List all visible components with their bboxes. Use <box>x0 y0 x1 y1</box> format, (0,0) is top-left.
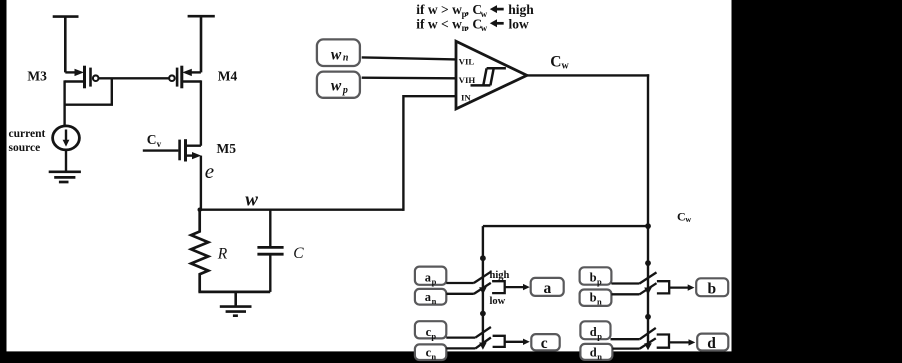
box an <box>415 289 446 306</box>
condition text line 1 <box>416 2 534 19</box>
svg-text:source: source <box>9 142 41 154</box>
letterbox right bar <box>732 0 902 363</box>
wire dp to switch <box>611 338 640 340</box>
switch blade b high <box>640 272 657 283</box>
condition text line 2 <box>416 16 529 33</box>
svg-text:w: w <box>245 189 258 210</box>
svg-text:p: p <box>431 331 436 341</box>
svg-text:C: C <box>293 245 304 262</box>
box ap <box>415 267 446 287</box>
VDD rail 2 <box>188 16 215 72</box>
svg-text:VIH: VIH <box>459 75 476 85</box>
transistor M3 <box>65 66 99 89</box>
svg-text:p: p <box>597 331 602 341</box>
svg-text:if w < w: if w < w <box>416 16 462 31</box>
switch blade a high <box>474 272 491 283</box>
svg-text:C: C <box>550 54 561 71</box>
label M5 <box>217 141 237 156</box>
wire ap to switch <box>446 282 474 284</box>
label M4 <box>218 69 238 84</box>
arrow left line 2 <box>490 19 504 27</box>
arrow a output <box>505 284 530 290</box>
hysteresis symbol <box>471 68 506 85</box>
comparator U1 triangle <box>456 41 527 109</box>
arrow left line 1 <box>490 5 504 13</box>
wire current source to ground <box>65 150 67 172</box>
svg-text:p: p <box>597 276 602 286</box>
box bp <box>580 267 612 286</box>
svg-text:low: low <box>509 16 530 31</box>
ground G2 <box>220 292 252 316</box>
svg-text:high: high <box>490 270 510 281</box>
switch pole bracket b <box>657 281 669 293</box>
label e <box>205 159 214 183</box>
svg-text:if w > w: if w > w <box>416 2 462 17</box>
label Cv <box>147 132 162 149</box>
svg-text:R: R <box>217 245 228 262</box>
junction dot a top <box>480 255 486 261</box>
current source I1 <box>53 126 80 150</box>
svg-text:M3: M3 <box>27 69 47 84</box>
svg-text:b: b <box>590 270 597 284</box>
svg-text:p: p <box>342 85 348 96</box>
svg-text:IN: IN <box>461 93 471 103</box>
pin label VIL <box>459 56 475 66</box>
box wn <box>317 39 360 66</box>
control arrowhead c <box>479 343 487 350</box>
svg-text:c: c <box>541 335 548 352</box>
wire branch to left column <box>483 225 648 227</box>
ground G1 <box>49 172 81 182</box>
svg-text:low: low <box>490 296 506 307</box>
svg-text:M5: M5 <box>217 141 237 156</box>
transistor M5 <box>143 139 201 161</box>
svg-text:e: e <box>205 159 214 183</box>
wire bp to switch <box>611 282 639 284</box>
svg-text:w: w <box>481 23 488 33</box>
wire M5 source down to node w <box>200 156 202 211</box>
letterbox left bar <box>0 0 7 363</box>
wire an to switch <box>446 293 474 295</box>
svg-text:high: high <box>508 2 534 17</box>
box cp <box>415 321 446 341</box>
svg-text:C: C <box>677 210 686 224</box>
switch blade d high <box>640 328 656 339</box>
wire diode feedback <box>65 78 112 104</box>
pin label IN <box>461 93 471 103</box>
transistor M4 <box>169 66 201 89</box>
label Cw small <box>677 210 691 224</box>
label low <box>490 296 506 307</box>
junction dot a bottom <box>480 311 486 317</box>
box dp <box>580 321 610 341</box>
control arrowhead b <box>644 288 652 295</box>
wire dn to switch <box>612 347 639 349</box>
svg-text:M4: M4 <box>218 69 238 84</box>
junction dot b bottom <box>645 314 651 320</box>
capacitor C <box>257 210 283 292</box>
VDD rail 1 <box>53 17 79 73</box>
switch blade b low <box>640 283 657 294</box>
arrow b output <box>669 284 694 290</box>
svg-text:n: n <box>343 52 349 63</box>
svg-text:w: w <box>331 77 342 94</box>
wire cp to switch <box>446 336 475 338</box>
wire Cw vertical right column <box>647 74 649 343</box>
box d <box>697 334 728 352</box>
label M3 <box>27 69 47 84</box>
svg-text:C: C <box>147 132 157 147</box>
switch blade d low <box>640 338 656 348</box>
svg-text:b: b <box>590 290 597 304</box>
svg-text:b: b <box>708 280 717 297</box>
control arrowhead d <box>644 343 652 350</box>
wire M4 drain down <box>200 80 202 145</box>
node w junction <box>198 208 202 212</box>
box cn <box>415 344 446 361</box>
control arrowhead a <box>479 287 487 294</box>
wire M3 drain down <box>63 80 65 125</box>
label high <box>490 270 510 281</box>
svg-text:d: d <box>707 335 716 352</box>
svg-text:n: n <box>597 296 602 306</box>
svg-text:v: v <box>157 139 162 149</box>
junction dot b top <box>645 260 651 266</box>
svg-text:w: w <box>331 46 342 63</box>
label current source <box>9 128 46 154</box>
switch blade c high <box>475 327 491 338</box>
wire w horizontal <box>200 208 404 210</box>
letterbox bottom bar <box>0 351 902 363</box>
switch blade c low <box>475 338 491 349</box>
label Cw output <box>550 54 569 72</box>
box a <box>531 278 564 297</box>
wire cn to switch <box>446 347 475 349</box>
wire left column vertical <box>482 226 484 343</box>
switch blade a low <box>474 283 491 294</box>
switch pole bracket a <box>492 281 505 293</box>
wire RC bottom <box>198 291 270 294</box>
box bn <box>580 290 612 307</box>
wire w to IN vertical <box>403 96 456 211</box>
svg-text:a: a <box>544 280 552 297</box>
svg-text:d: d <box>590 325 597 339</box>
wire gate bus M3-M4 <box>98 77 169 79</box>
arrow c output <box>505 339 530 345</box>
arrow d output <box>669 339 695 345</box>
svg-text:VIL: VIL <box>459 56 475 66</box>
wire wp to VIH <box>362 76 456 79</box>
label R <box>217 245 228 262</box>
svg-text:p: p <box>432 276 437 286</box>
svg-text:n: n <box>431 351 436 361</box>
resistor R <box>191 210 208 292</box>
pin label VIH <box>459 75 476 85</box>
wire bn to switch <box>611 293 639 295</box>
box b <box>696 278 728 297</box>
wire wn to VIL <box>362 57 456 59</box>
svg-text:current: current <box>9 128 46 140</box>
label C <box>293 245 304 262</box>
svg-text:n: n <box>597 351 602 361</box>
wire comparator output <box>527 74 649 76</box>
svg-text:w: w <box>562 61 570 72</box>
box wp <box>317 72 360 98</box>
switch pole bracket d <box>657 335 669 348</box>
svg-text:d: d <box>590 345 597 359</box>
switch pole bracket c <box>493 336 505 347</box>
box dn <box>580 344 612 362</box>
svg-text:w: w <box>685 215 691 224</box>
box c <box>531 334 559 352</box>
svg-text:n: n <box>432 296 437 306</box>
junction dot Cw branch <box>645 223 651 229</box>
label w <box>245 189 258 210</box>
